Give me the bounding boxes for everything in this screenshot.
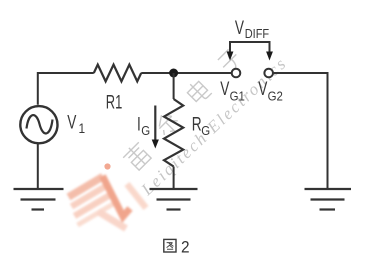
char 电 (185, 78, 212, 105)
watermark dot (104, 163, 110, 169)
wire: RG to ground (173, 167, 175, 190)
wire: node down to RG (173, 73, 175, 99)
resistor RG (164, 99, 183, 167)
terminal VG1 (open circle) (232, 69, 241, 78)
ground (under V1) (14, 189, 64, 210)
label IG (137, 113, 150, 138)
watermark chinese chars (hand-drawn glyphs) (121, 48, 243, 172)
svg-text:V: V (258, 78, 267, 100)
svg-text:R: R (192, 113, 202, 135)
label VG1 (220, 78, 245, 104)
svg-text:G2: G2 (268, 89, 283, 104)
current arrow IG (154, 106, 156, 142)
svg-text:G1: G1 (230, 89, 245, 104)
svg-text:G: G (201, 123, 210, 138)
svg-text:1: 1 (79, 120, 86, 136)
node junction dot (169, 69, 178, 78)
svg-text:DIFF: DIFF (245, 27, 269, 41)
label VG2 (258, 78, 283, 104)
sine wave inside V1 (27, 115, 53, 133)
svg-text:I: I (137, 113, 141, 135)
label V1 (67, 111, 85, 136)
wire: R1 to VG1 terminal (141, 72, 231, 74)
wire: V1 top to R1 (38, 73, 94, 105)
label VDIFF (235, 17, 269, 41)
terminal VG2 (open circle) (264, 69, 273, 78)
svg-text:G: G (141, 123, 150, 138)
char 子 (217, 48, 243, 74)
ground (right) (305, 189, 352, 210)
V_DIFF bracket with arrows (230, 42, 270, 53)
wire: V1 bottom to ground (37, 144, 39, 190)
char 雷 (121, 140, 153, 172)
watermark logo (salmon 3D mark) (69, 176, 147, 229)
char 尔 (153, 110, 181, 138)
ground (under RG) (150, 189, 198, 210)
svg-text:2: 2 (181, 239, 190, 256)
voltage source V1 (20, 106, 57, 143)
svg-text:V: V (235, 17, 244, 39)
label RG (192, 113, 210, 138)
wire: VG2 to right ground (273, 73, 328, 189)
caption: hand-drawn 图 glyph (164, 239, 176, 252)
svg-text:V: V (67, 111, 76, 133)
resistor R1 (94, 65, 141, 82)
svg-text:R1: R1 (106, 92, 123, 113)
svg-text:V: V (220, 78, 229, 100)
